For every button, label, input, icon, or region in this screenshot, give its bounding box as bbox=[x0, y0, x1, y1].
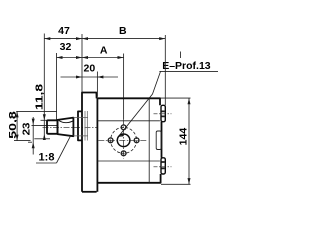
flange plate bottom bbox=[82, 191, 97, 193]
keyway arc bbox=[59, 121, 73, 123]
extension line x=165.2 rear face bbox=[164, 35, 166, 105]
arrow B right bbox=[159, 37, 165, 40]
bolt hole right bbox=[134, 138, 139, 143]
shaft taper section bbox=[58, 118, 74, 137]
arrow 50,8 down bbox=[16, 135, 19, 141]
dimension line 144 vertical bbox=[188, 98, 190, 184]
dimension line 23 vertical bbox=[32, 117, 34, 155]
hub pilot 50.8 bbox=[78, 111, 82, 140]
bolt hole left bbox=[108, 138, 113, 143]
extension line x=56.5 bbox=[56, 53, 58, 120]
svg-text:23: 23 bbox=[21, 123, 32, 136]
arrowhead E-Prof leader bbox=[119, 133, 125, 136]
arrow up at shaft bottom bbox=[43, 134, 46, 140]
extension line y=184.3 body bottom right bbox=[161, 183, 191, 185]
shaft centerline bbox=[43, 127, 97, 129]
arrow 23 bottom outside bbox=[32, 142, 35, 148]
svg-text:1:8: 1:8 bbox=[39, 152, 55, 164]
underline 1:8 bbox=[36, 162, 57, 164]
dimension line 50,8 vertical bbox=[16, 111, 18, 140]
arrow 144 up bbox=[188, 98, 191, 104]
extension line y=142.2 bbox=[28, 141, 32, 143]
body horizontal line bottom bbox=[97, 160, 160, 162]
extension line x=97.4 body front bbox=[96, 72, 98, 97]
bottom port tab bbox=[161, 158, 165, 174]
extension line x=45 shaft tip / 11,8 dim line bbox=[43, 34, 45, 140]
tab centerline top bbox=[154, 113, 172, 115]
port circle bbox=[117, 134, 130, 147]
port centerline horizontal bbox=[98, 139, 146, 141]
arrow 23 top outside bbox=[32, 119, 35, 125]
arrow A left bbox=[82, 56, 88, 59]
arrow 20 right outside bbox=[97, 76, 103, 79]
extension line y=140.5 hub bottom bbox=[14, 140, 31, 142]
tab centerline bottom bbox=[154, 166, 172, 168]
shaft lines through plate bbox=[73, 118, 88, 136]
arrow 144 down bbox=[188, 178, 191, 184]
extension line x=123.5 port axis upper bbox=[123, 54, 125, 120]
arrow 32 left bbox=[57, 56, 63, 59]
bolt circle dashed bbox=[111, 127, 137, 153]
top port tab bbox=[161, 105, 165, 121]
port centerline vertical bbox=[123, 119, 125, 159]
arrow 11,8 down at key top bbox=[43, 114, 46, 120]
dimension line row3: 20 with outside arrows bbox=[61, 76, 119, 78]
arrow A right bbox=[118, 56, 124, 59]
extension line y=111.4 hub top bbox=[16, 110, 57, 112]
svg-text:47: 47 bbox=[58, 25, 70, 37]
underline E-Prof.13 bbox=[159, 70, 218, 72]
extension line y=98.1 body top right bbox=[161, 97, 191, 99]
svg-text:E–Prof.13: E–Prof.13 bbox=[162, 60, 211, 72]
svg-text:144: 144 bbox=[178, 128, 189, 146]
extension line y=120.3 key top bbox=[41, 119, 48, 121]
body outline bbox=[97, 98, 161, 192]
extension line y=125.4 bbox=[32, 124, 58, 126]
svg-text:20: 20 bbox=[84, 63, 96, 75]
svg-text:A: A bbox=[100, 45, 108, 57]
arrow 32 right bbox=[76, 56, 82, 59]
top tab inner lines bbox=[162, 111, 165, 116]
bolt hole bottom bbox=[121, 151, 126, 156]
dimension line row2: 32 and A bbox=[57, 57, 124, 59]
extension line y=138.8 bbox=[34, 138, 50, 140]
arrow 47 left bbox=[44, 37, 50, 40]
arrow B left bbox=[82, 37, 88, 40]
leader 1:8 to taper bbox=[57, 137, 71, 163]
svg-text:32: 32 bbox=[60, 41, 72, 53]
rear face inner boss bbox=[156, 131, 161, 150]
body joint line rear bbox=[148, 98, 150, 182]
arrow 47 right bbox=[76, 37, 82, 40]
arrow 20 left outside bbox=[76, 76, 82, 79]
dimension line row1: 47 and B bbox=[44, 38, 165, 40]
plate inner vertical lines bbox=[85, 111, 87, 141]
arrow 50,8 up bbox=[16, 111, 19, 117]
tick above E-Prof.13 bbox=[180, 52, 182, 59]
svg-text:11,8: 11,8 bbox=[33, 84, 45, 110]
bolt hole top bbox=[121, 125, 126, 130]
shaft stub bbox=[47, 120, 58, 134]
extension line x=82 flange face bbox=[81, 34, 83, 93]
body horizontal line top bbox=[97, 120, 160, 122]
flange plate bbox=[82, 93, 97, 192]
bottom tab inner lines bbox=[162, 162, 165, 168]
svg-text:B: B bbox=[119, 25, 127, 37]
leader E-Prof.13 bbox=[119, 72, 160, 136]
